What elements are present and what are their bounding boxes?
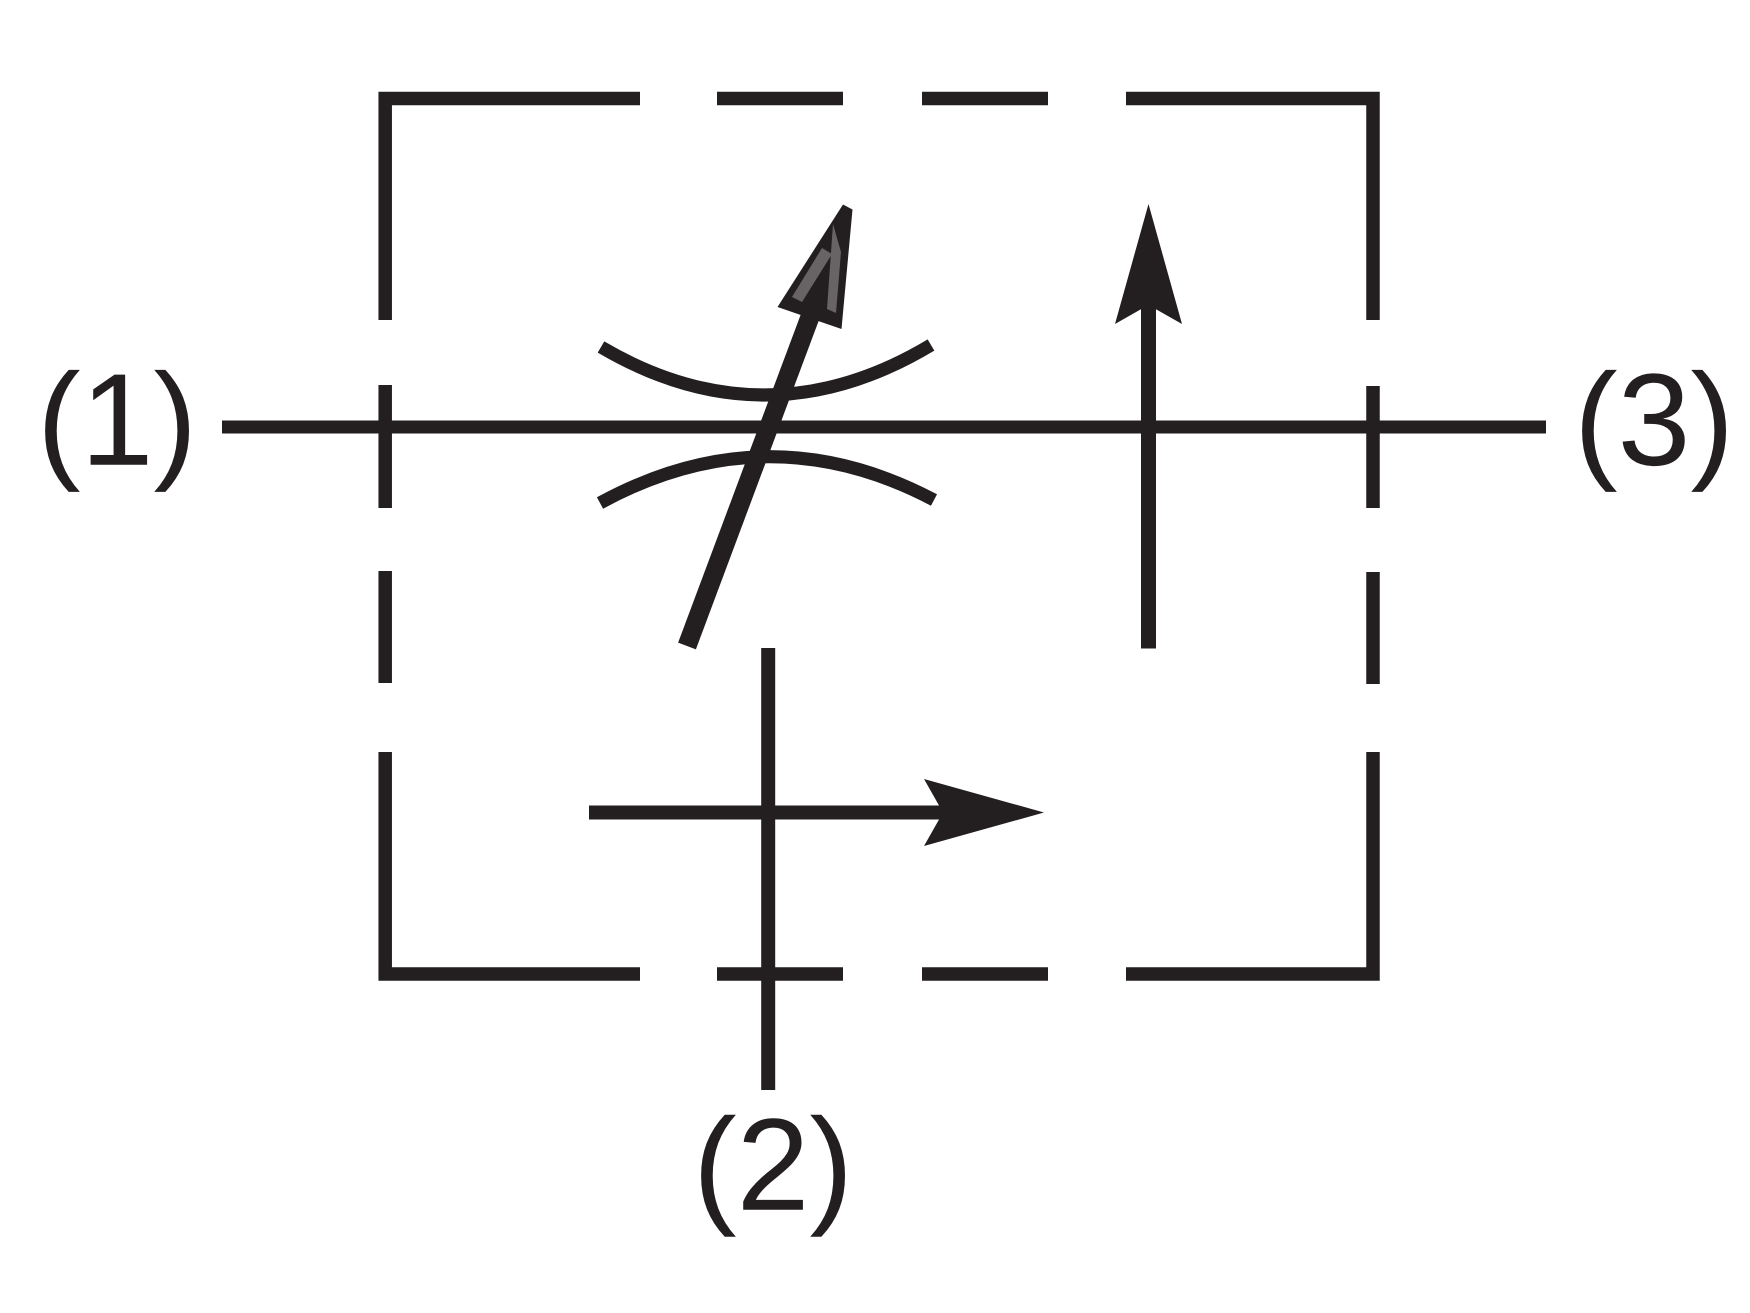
enclosure bottom dash 2 (717, 967, 843, 981)
svg-text:(2): (2) (693, 1091, 853, 1238)
diagonal arrowhead gray hatch band right (827, 224, 841, 313)
enclosure right dash 2 (1366, 386, 1380, 508)
pilot horizontal arrow shaft (589, 806, 950, 820)
enclosure bottom-left corner dash (385, 752, 640, 974)
enclosure top dash 2 (717, 92, 843, 106)
pilot horizontal arrowhead (924, 779, 1044, 846)
enclosure left dash 2 (378, 385, 392, 508)
svg-text:(1): (1) (37, 346, 197, 493)
variable restrictor upper arc (601, 345, 931, 395)
wire port 2 vertical line (761, 648, 775, 1090)
enclosure right dash 3 (1366, 572, 1380, 684)
enclosure top dash 3 (922, 92, 1048, 106)
variable restrictor lower arc (600, 457, 934, 503)
variable restrictor diagonal arrow shaft (687, 242, 838, 646)
wire port 1 to port 3 main line (222, 421, 1546, 434)
enclosure bottom dash 3 (922, 967, 1048, 981)
svg-text:(3): (3) (1574, 346, 1734, 493)
enclosure top-left corner dash (385, 99, 640, 321)
enclosure top-right corner dash (1126, 99, 1373, 321)
diagonal arrowhead gray hatch band left (792, 248, 832, 302)
compensator vertical arrow shaft (1141, 300, 1156, 649)
compensator vertical arrowhead (1115, 204, 1182, 324)
variable restrictor diagonal arrowhead (778, 205, 853, 330)
enclosure left dash 3 (378, 571, 392, 683)
enclosure bottom-right corner dash (1126, 752, 1373, 974)
